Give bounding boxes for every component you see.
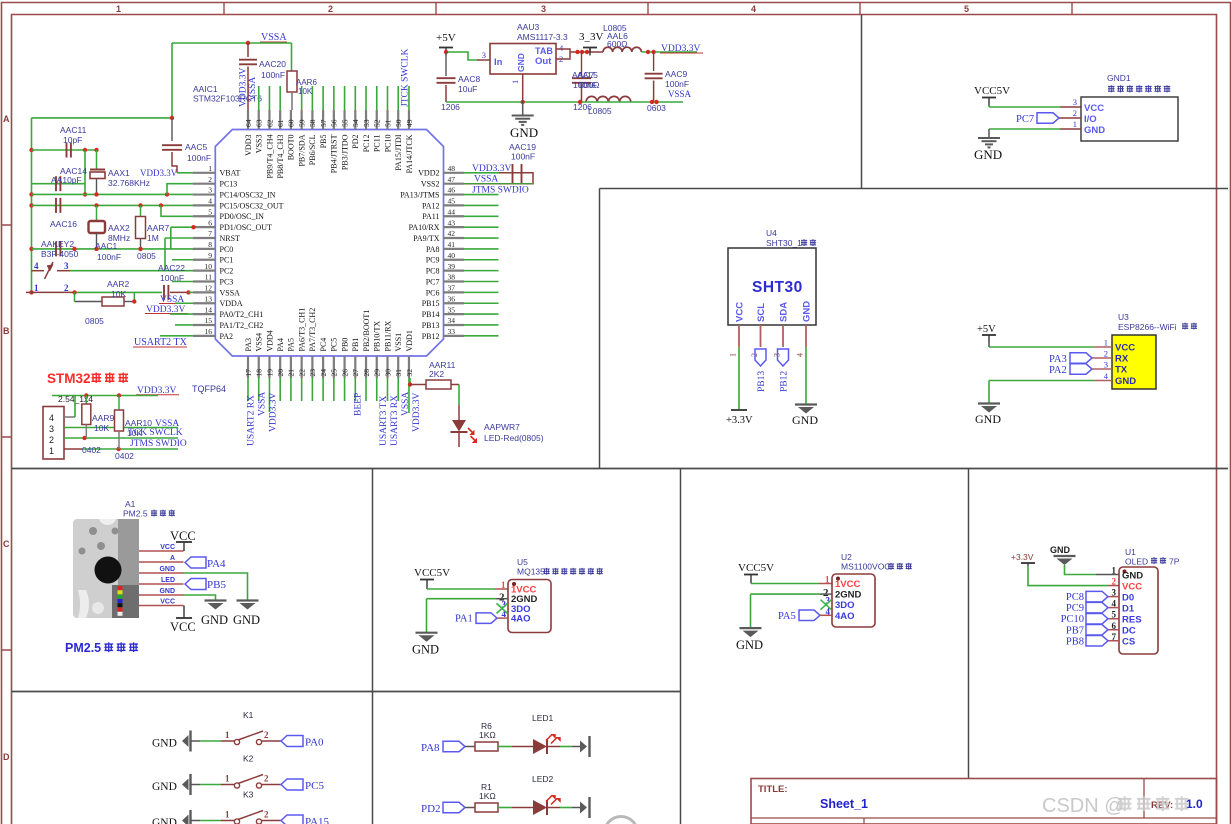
svg-text:3: 3 [49, 424, 54, 434]
svg-text:600Ω: 600Ω [607, 39, 628, 49]
svg-text:MS1100VOC: MS1100VOC [841, 562, 890, 572]
svg-text:D: D [3, 752, 10, 762]
svg-text:PA10/RX: PA10/RX [409, 223, 440, 232]
svg-text:PB15: PB15 [422, 299, 440, 308]
svg-text:4: 4 [751, 4, 756, 14]
svg-text:1: 1 [225, 730, 230, 740]
wire NRST pin7 [165, 237, 193, 239]
svg-text:VDD3.3V: VDD3.3V [239, 68, 249, 107]
buzzer module body GND1 [1081, 97, 1178, 141]
wire connector pin1 [64, 448, 82, 450]
resistor AAR11 2K2 [426, 380, 451, 389]
svg-text:1: 1 [49, 446, 54, 456]
svg-text:16: 16 [205, 327, 213, 336]
svg-text:Sheet_1: Sheet_1 [820, 797, 868, 811]
svg-text:SHT30_1: SHT30_1 [766, 238, 802, 248]
svg-text:53: 53 [362, 119, 371, 127]
capacitor AAC5 100nF at pin1 [171, 118, 173, 141]
svg-text:U1: U1 [1125, 547, 1136, 557]
wire AAR11 to LED [451, 384, 459, 386]
svg-text:BOOT0: BOOT0 [287, 135, 296, 161]
svg-text:VDD3.3V: VDD3.3V [269, 393, 279, 432]
svg-text:GND: GND [152, 738, 177, 750]
PM2.5 sensor photo [73, 519, 139, 618]
svg-text:PC9: PC9 [426, 256, 440, 265]
svg-text:PB1: PB1 [351, 338, 360, 352]
svg-text:PB7: PB7 [1066, 625, 1084, 636]
svg-text:+3.3V: +3.3V [1011, 552, 1034, 562]
svg-text:GND: GND [1050, 545, 1071, 555]
border row ticks [2, 225, 12, 650]
ground U5 [416, 632, 438, 634]
svg-text:Out: Out [535, 56, 552, 67]
svg-text:MQ135: MQ135 [517, 567, 545, 577]
ground symbol OLED top [1054, 555, 1076, 557]
svg-text:NRST: NRST [220, 234, 241, 243]
svg-text:2K2: 2K2 [429, 369, 444, 379]
svg-text:PA15/JTDI: PA15/JTDI [394, 134, 403, 170]
svg-text:10K: 10K [298, 87, 313, 96]
svg-text:2: 2 [328, 4, 333, 14]
wire LED to ground LED1 [547, 746, 560, 748]
title block row line [751, 817, 1217, 819]
svg-text:3_3V: 3_3V [579, 31, 604, 43]
module body U5 [508, 580, 551, 633]
svg-text:VCC: VCC [160, 544, 175, 551]
svg-text:GND: GND [233, 613, 260, 627]
capacitor AAC7 overlap labels [581, 52, 583, 76]
svg-text:12: 12 [205, 284, 213, 293]
svg-text:63: 63 [255, 119, 264, 127]
svg-text:61: 61 [276, 119, 285, 127]
svg-text:100nF: 100nF [261, 70, 285, 80]
svg-text:PB7/SDA: PB7/SDA [297, 134, 306, 166]
svg-text:TQFP64: TQFP64 [192, 384, 226, 394]
svg-text:CSDN @: CSDN @ [1042, 795, 1125, 817]
svg-text:1.0: 1.0 [1186, 797, 1203, 811]
IC AAIC1 STM32F103RCT6 body outline [215, 130, 443, 357]
svg-text:42: 42 [448, 229, 456, 238]
svg-text:PC8: PC8 [1066, 592, 1084, 603]
svg-text:PB3/JTDO: PB3/JTDO [340, 134, 349, 170]
svg-text:4AO: 4AO [835, 611, 855, 622]
wire pin6 row [171, 226, 193, 228]
svg-text:PB8/T4_CH3: PB8/T4_CH3 [276, 135, 285, 179]
svg-text:PB0: PB0 [340, 338, 349, 352]
svg-text:VSSA: VSSA [401, 392, 411, 416]
switch contacts K2 [234, 783, 239, 788]
svg-text:USART3 RX: USART3 RX [390, 395, 400, 446]
svg-text:AAKEY2: AAKEY2 [41, 239, 74, 249]
wire pin11 [172, 281, 193, 283]
svg-text:4: 4 [208, 197, 212, 206]
svg-text:26: 26 [340, 369, 349, 377]
svg-text:PD2: PD2 [351, 135, 360, 149]
title block REV divider [1143, 779, 1145, 819]
svg-text:0805: 0805 [137, 251, 156, 261]
chip right green wires pins 46-33 [464, 195, 499, 336]
svg-text:1: 1 [1112, 566, 1117, 576]
svg-text:SDA: SDA [779, 302, 790, 322]
svg-text:PC7: PC7 [1016, 114, 1034, 125]
svg-text:PC13: PC13 [220, 180, 238, 189]
svg-text:+5V: +5V [977, 324, 996, 335]
svg-text:4: 4 [796, 353, 805, 357]
wire pin2 to ground U2 [820, 593, 832, 595]
svg-text:27: 27 [351, 369, 360, 377]
chip right pin stubs [444, 173, 465, 336]
resistor AAR2 10K [74, 292, 76, 301]
chip top pin stubs [248, 110, 409, 130]
svg-text:PM2.5: PM2.5 [65, 641, 101, 655]
svg-text:1: 1 [116, 4, 121, 14]
svg-text:PC3: PC3 [220, 277, 234, 286]
svg-text:2: 2 [264, 730, 269, 740]
svg-text:PB8: PB8 [1066, 636, 1084, 647]
svg-text:AAC5: AAC5 [185, 142, 207, 152]
resistor AAR7 1M [140, 205, 142, 216]
svg-text:35: 35 [448, 305, 456, 314]
svg-text:4: 4 [49, 413, 54, 423]
svg-text:+3.3V: +3.3V [726, 415, 753, 426]
svg-text:2: 2 [49, 435, 54, 445]
wire VCC5V to pin1 U2 [750, 583, 752, 584]
svg-text:LED2: LED2 [532, 774, 554, 784]
svg-text:5: 5 [208, 207, 212, 216]
svg-text:DC: DC [1122, 626, 1136, 637]
svg-text:37: 37 [448, 284, 456, 293]
wire rail left x31.5 [29, 148, 33, 152]
wire ESP GND [1094, 380, 1112, 382]
wire +5V to ESP VCC [988, 343, 990, 347]
svg-text:PA0/T2_CH1: PA0/T2_CH1 [220, 310, 264, 319]
svg-text:PC10: PC10 [1061, 614, 1084, 625]
LED AAPWR7 LED-Red(0805) [452, 420, 466, 432]
LED LED1 [533, 739, 547, 754]
no-connect X pin3 U2 [821, 600, 832, 610]
ground ESP8266 [978, 402, 1000, 404]
svg-text:U3: U3 [1118, 312, 1129, 322]
svg-text:3: 3 [1104, 360, 1108, 370]
svg-text:45: 45 [448, 197, 456, 206]
svg-text:13: 13 [205, 294, 213, 303]
wire step to pin2 [167, 184, 193, 195]
port PA0 [281, 736, 303, 747]
svg-text:57: 57 [319, 119, 328, 127]
svg-text:1: 1 [501, 580, 506, 590]
capacitor AAC11 10pF [66, 143, 68, 158]
svg-text:1VCC: 1VCC [835, 579, 860, 590]
svg-text:SCL: SCL [756, 303, 767, 322]
svg-text:GND: GND [792, 413, 818, 427]
svg-text:34: 34 [448, 316, 456, 325]
svg-text:GND: GND [510, 125, 538, 140]
svg-text:VSS3: VSS3 [255, 135, 264, 154]
wire key top row to pin10 [70, 270, 193, 272]
svg-text:VCC: VCC [170, 529, 196, 543]
svg-text:31: 31 [394, 369, 403, 377]
svg-text:AAX1: AAX1 [108, 168, 130, 178]
svg-text:PB6/SCL: PB6/SCL [308, 134, 317, 165]
svg-text:AMS1117-3.3: AMS1117-3.3 [517, 32, 568, 42]
svg-text:VSSA: VSSA [248, 77, 258, 101]
svg-text:VBAT: VBAT [220, 169, 241, 178]
svg-text:USART2 RX: USART2 RX [247, 395, 257, 446]
svg-text:I/O: I/O [1084, 114, 1097, 125]
svg-text:PA5: PA5 [778, 611, 796, 622]
wire pin48 VDD3.3V [464, 172, 499, 174]
svg-text:10K: 10K [94, 423, 109, 433]
wire SHT30 VCC to +3.3V [738, 347, 740, 409]
crystal AAX2 8MHz [96, 205, 98, 221]
wire switch to port K1 [262, 740, 281, 742]
svg-text:41: 41 [448, 240, 456, 249]
svg-text:600Ω: 600Ω [579, 80, 600, 90]
svg-text:GND: GND [159, 566, 175, 573]
svg-text:U4: U4 [766, 228, 777, 238]
svg-text:AAX2: AAX2 [108, 223, 130, 233]
svg-text:0603: 0603 [647, 103, 666, 113]
PM2.5 pin wires [139, 551, 184, 606]
svg-text:GND: GND [159, 588, 175, 595]
chip top pin wires green stubs [259, 86, 409, 110]
svg-text:PC5: PC5 [330, 338, 339, 352]
svg-text:VDD2: VDD2 [418, 169, 439, 178]
SHT30 pin stubs [739, 325, 806, 347]
panel divider horizontal y691 [12, 691, 681, 693]
svg-text:1: 1 [1104, 338, 1108, 348]
svg-text:VCC5V: VCC5V [974, 85, 1010, 97]
svg-text:1M: 1M [147, 233, 159, 243]
svg-text:PB11/RX: PB11/RX [383, 320, 392, 351]
wire VCC5V to pin1 U5 [426, 588, 428, 590]
power flag VCC bottom [176, 617, 192, 619]
svg-text:A: A [170, 555, 175, 562]
OLED module body [1119, 567, 1158, 654]
chip bottom pin stubs [248, 356, 409, 378]
wire step to pin5 [161, 205, 193, 216]
svg-text:TITLE:: TITLE: [758, 784, 788, 795]
svg-text:GND: GND [736, 638, 763, 652]
svg-text:AAC16: AAC16 [50, 219, 77, 229]
wire LED to ground LED2 [547, 807, 560, 809]
SHT30 module body [728, 248, 816, 325]
wire pin13 [175, 302, 193, 304]
title block column line bottom [863, 818, 865, 824]
svg-text:VSSA: VSSA [474, 175, 498, 185]
svg-text:D1: D1 [1122, 603, 1135, 614]
svg-text:52: 52 [373, 119, 382, 127]
port PA4 [185, 557, 206, 568]
svg-text:11: 11 [205, 273, 212, 282]
svg-text:AAPWR7: AAPWR7 [484, 422, 520, 432]
svg-text:PC8: PC8 [426, 267, 440, 276]
svg-text:RES: RES [1122, 615, 1142, 626]
svg-text:PB12: PB12 [780, 371, 790, 392]
pin1 dot U2 [836, 577, 840, 581]
svg-text:USART3 TX: USART3 TX [379, 396, 389, 446]
svg-text:ESP8266--WiFi: ESP8266--WiFi [1118, 322, 1177, 332]
wire PM2.5 GND1 to ground [184, 573, 248, 600]
svg-text:32.768KHz: 32.768KHz [108, 178, 150, 188]
port PB12 flag down [778, 349, 789, 366]
no-connect X pin3 U5 [497, 603, 508, 613]
svg-text:1: 1 [1073, 119, 1077, 129]
svg-text:VCC: VCC [1115, 343, 1135, 354]
resistor R6 1K [475, 742, 498, 751]
svg-text:8: 8 [208, 240, 212, 249]
svg-text:VDD4: VDD4 [265, 330, 274, 351]
connector P1 body [43, 407, 64, 460]
svg-text:PC1: PC1 [220, 256, 234, 265]
svg-text:AAR7: AAR7 [147, 223, 169, 233]
svg-text:PA5: PA5 [287, 338, 296, 352]
svg-text:AA10pF: AA10pF [51, 175, 82, 185]
svg-text:GND: GND [1115, 376, 1136, 387]
wire +5V to regulator [446, 52, 477, 60]
svg-text:PC7: PC7 [426, 277, 440, 286]
svg-text:PC12: PC12 [362, 135, 371, 153]
inductor AAL5 L0805 second [586, 96, 631, 102]
inductor AAL6 L0805 600ohm [603, 47, 641, 52]
svg-text:25: 25 [330, 369, 339, 377]
wire inductor to VDD3.3V [642, 51, 697, 53]
ground SHT30 [795, 403, 817, 405]
wire reset row3 y248.9 [32, 248, 194, 250]
svg-text:39: 39 [448, 262, 456, 271]
svg-text:100nF: 100nF [187, 153, 211, 163]
svg-text:60: 60 [287, 119, 296, 127]
svg-text:43: 43 [448, 218, 456, 227]
svg-text:VCC: VCC [170, 620, 196, 634]
wire VSSA loop [32, 43, 292, 292]
switch contacts K3 [234, 819, 239, 824]
svg-text:GND: GND [974, 147, 1002, 162]
svg-text:B: B [3, 326, 10, 336]
capacitor AAC16 100nF [55, 198, 57, 213]
svg-text:K2: K2 [243, 754, 254, 764]
svg-text:PD1/OSC_OUT: PD1/OSC_OUT [220, 223, 273, 232]
panel divider horizontal right y189 [600, 188, 1229, 190]
svg-text:PC9: PC9 [1066, 603, 1084, 614]
svg-text:PA3: PA3 [1049, 354, 1067, 365]
svg-text:2: 2 [64, 283, 69, 293]
svg-text:3: 3 [208, 186, 212, 195]
wire resistor to LED LED2 [498, 807, 512, 809]
svg-text:GND: GND [412, 643, 439, 657]
capacitor AAC14 10pF [32, 183, 86, 185]
wire pin32 to AAR11 [409, 378, 411, 385]
capacitor AAC8 10uF [445, 52, 447, 76]
svg-text:PA8: PA8 [421, 742, 440, 754]
svg-text:2: 2 [208, 175, 212, 184]
svg-text:PA6/T3_CH1: PA6/T3_CH1 [297, 308, 306, 352]
wire resistor to LED LED1 [498, 746, 512, 748]
svg-text:VSSA: VSSA [668, 89, 692, 99]
svg-text:47: 47 [448, 175, 456, 184]
svg-text:56: 56 [330, 119, 339, 127]
svg-text:VCC5V: VCC5V [738, 562, 774, 574]
svg-text:PC15/OSC32_OUT: PC15/OSC32_OUT [220, 201, 284, 210]
wire +3.3V to OLED VCC [1028, 566, 1108, 586]
svg-text:PA3: PA3 [244, 338, 253, 352]
svg-text:54: 54 [351, 119, 360, 127]
wire pin2 to ground U5 [496, 598, 508, 600]
svg-text:18: 18 [255, 369, 264, 377]
resistor AAR10 10K [118, 396, 120, 411]
svg-text:C: C [3, 539, 10, 549]
svg-text:AAR2: AAR2 [107, 279, 129, 289]
wire regulator In pin [477, 59, 490, 61]
port PB13 flag down [755, 349, 766, 366]
svg-text:50: 50 [394, 119, 403, 127]
wire connector pin4 [64, 416, 75, 418]
ground sideways LED2 [580, 802, 587, 814]
svg-text:D0: D0 [1122, 592, 1134, 603]
switch lever K3 [238, 811, 263, 820]
svg-text:PA1: PA1 [455, 614, 473, 625]
svg-text:1KΩ: 1KΩ [479, 730, 496, 740]
svg-text:VSSA: VSSA [258, 392, 268, 416]
svg-text:2: 2 [1073, 108, 1077, 118]
svg-text:PA2: PA2 [220, 332, 234, 341]
svg-text:PA15: PA15 [305, 816, 330, 824]
svg-text:VCC: VCC [1122, 581, 1142, 592]
svg-text:LED1: LED1 [532, 713, 554, 723]
capacitor AAC19 100nF loop at pin47 [464, 173, 533, 184]
label active buzzer module CJK [1108, 85, 1115, 92]
svg-text:AAR9: AAR9 [92, 413, 114, 423]
svg-text:GND: GND [152, 817, 177, 824]
svg-text:PC5: PC5 [305, 780, 324, 792]
svg-text:AAR10: AAR10 [125, 418, 152, 428]
svg-text:+5V: +5V [436, 32, 456, 44]
svg-text:PD2: PD2 [421, 803, 441, 815]
panel divider horizontal y469 [12, 468, 1229, 470]
svg-text:USART2 TX: USART2 TX [134, 337, 188, 348]
svg-text:PA0: PA0 [305, 737, 324, 749]
svg-text:TX: TX [1115, 365, 1128, 376]
wire gnd to switch K1 [191, 740, 201, 742]
svg-text:PB13: PB13 [422, 321, 440, 330]
svg-text:GND: GND [201, 613, 228, 627]
svg-text:3: 3 [482, 50, 486, 60]
svg-text:2GND: 2GND [835, 590, 862, 601]
svg-text:48: 48 [448, 164, 456, 173]
ground buzzer [988, 129, 990, 138]
svg-text:1: 1 [34, 283, 39, 293]
capacitor AAC9 100nF [653, 52, 655, 71]
wire gnd to switch K2 [191, 784, 201, 786]
svg-text:GND: GND [152, 781, 177, 793]
svg-text:PB9/T4_CH4: PB9/T4_CH4 [265, 135, 274, 179]
svg-text:1: 1 [208, 164, 212, 173]
svg-text:RX: RX [1115, 354, 1129, 365]
svg-text:AAL5: AAL5 [577, 70, 598, 80]
wire pin16 USART2 TX [160, 335, 193, 337]
wire switch to port K2 [262, 784, 281, 786]
svg-text:AAC1: AAC1 [95, 241, 117, 251]
svg-text:K3: K3 [243, 790, 254, 800]
svg-text:64: 64 [244, 119, 253, 127]
regulator pin 1 stub [522, 74, 524, 102]
svg-text:A1: A1 [125, 499, 136, 509]
svg-text:PB14: PB14 [422, 310, 440, 319]
svg-text:46: 46 [448, 186, 456, 195]
svg-text:JTCK SWCLK: JTCK SWCLK [401, 49, 411, 107]
svg-text:15: 15 [205, 316, 213, 325]
svg-text:BEEP: BEEP [354, 393, 364, 416]
